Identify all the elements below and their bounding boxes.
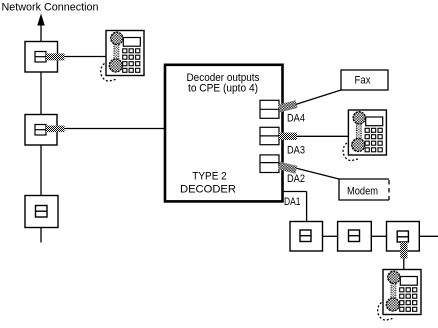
svg-text:DA4: DA4 xyxy=(287,113,305,125)
svg-text:TYPE 2: TYPE 2 xyxy=(192,171,227,183)
svg-text:to CPE (upto 4): to CPE (upto 4) xyxy=(188,83,258,95)
svg-text:Modem: Modem xyxy=(347,186,378,198)
svg-text:DA2: DA2 xyxy=(287,173,305,185)
svg-text:Network Connection: Network Connection xyxy=(2,2,99,14)
svg-text:DECODER: DECODER xyxy=(180,184,236,196)
svg-text:DA3: DA3 xyxy=(287,145,305,157)
svg-text:Fax: Fax xyxy=(355,75,371,87)
svg-text:DA1: DA1 xyxy=(284,196,301,208)
